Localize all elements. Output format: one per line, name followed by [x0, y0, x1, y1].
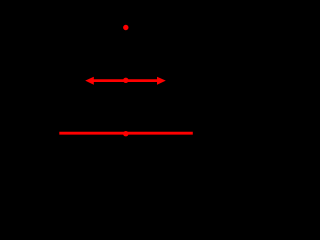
- ball (red dot, top): [123, 25, 128, 30]
- center dot on arrow: [123, 78, 128, 83]
- dot on floor line: [123, 131, 128, 136]
- floor line: [59, 132, 193, 135]
- double-headed amplitude arrow: [85, 77, 166, 85]
